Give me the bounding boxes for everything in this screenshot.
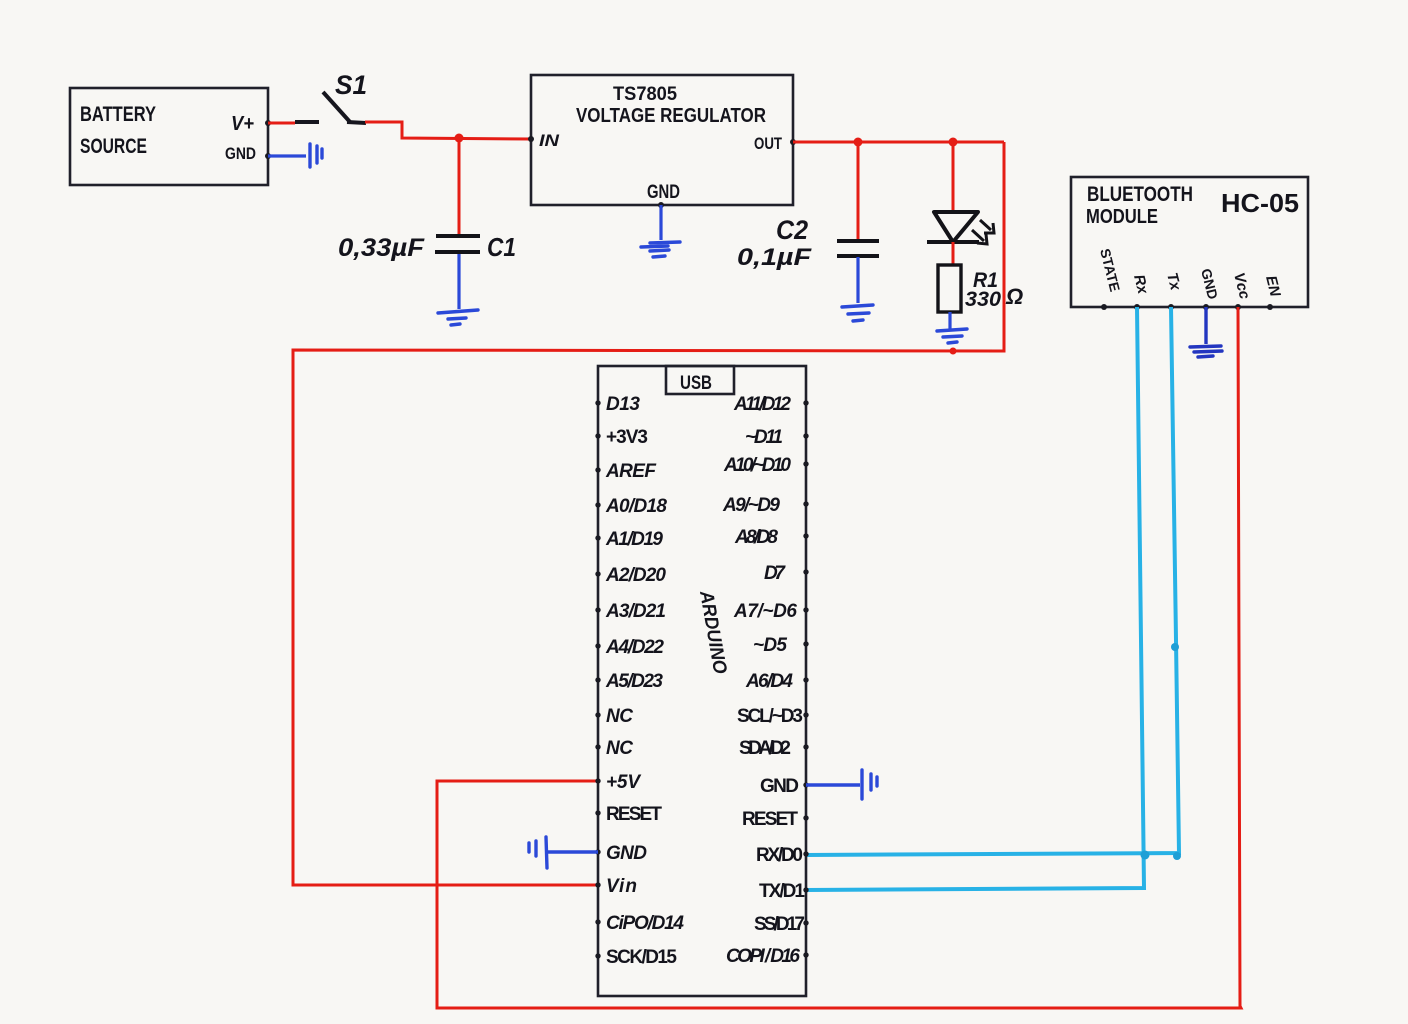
capacitor C1 (338, 138, 516, 309)
svg-text:C2: C2 (776, 215, 808, 245)
svg-text:MODULE: MODULE (1086, 206, 1158, 228)
svg-text:+3V3: +3V3 (606, 427, 648, 448)
wire HC-05 Vcc to +5V (red loop) (437, 307, 1241, 1008)
svg-text:NC: NC (606, 738, 633, 759)
svg-text:SS/D17: SS/D17 (754, 914, 805, 935)
wire arduino left GND to ground (548, 850, 598, 853)
op-amp U1 voltage regulator TS7805 box (528, 75, 796, 208)
svg-text:S1: S1 (335, 70, 367, 100)
svg-text:GND: GND (647, 182, 680, 203)
svg-text:+5V: +5V (606, 772, 641, 793)
node red dot on bottom rail (950, 348, 957, 355)
svg-text:OUT: OUT (754, 134, 782, 153)
svg-text:AREF: AREF (605, 461, 657, 482)
node junction LED tap (949, 138, 958, 147)
svg-text:USB: USB (680, 373, 712, 394)
arduino left pins (595, 394, 684, 968)
pin STATE (1097, 247, 1123, 310)
wire regulator OUT rail (793, 141, 1004, 144)
svg-text:Ω: Ω (1005, 284, 1023, 309)
switch S1 (295, 70, 367, 123)
wire OUT down-left to Vin (red loop) (293, 142, 1004, 885)
svg-text:~D5: ~D5 (753, 635, 787, 656)
svg-text:RX/D0: RX/D0 (756, 845, 803, 866)
pin Rx (1130, 273, 1151, 310)
svg-text:A1/D19: A1/D19 (605, 529, 663, 550)
resistor R1 330 ohm (938, 265, 1023, 330)
ground (R1) (937, 329, 967, 343)
svg-text:V+: V+ (231, 113, 254, 135)
svg-text:TS7805: TS7805 (613, 84, 677, 105)
svg-text:330: 330 (965, 288, 1001, 311)
svg-text:A0/D18: A0/D18 (605, 496, 667, 517)
ground (regulator) (641, 242, 680, 257)
wire HC-05 Rx to Arduino TX/D1 (cyan) (806, 307, 1144, 890)
svg-text:GND: GND (760, 776, 799, 797)
svg-text:A3/D21: A3/D21 (605, 601, 666, 622)
battery source box (70, 88, 271, 185)
svg-text:D13: D13 (606, 394, 640, 415)
svg-text:A10/~D10: A10/~D10 (723, 455, 791, 476)
ground (arduino left) (529, 837, 547, 868)
capacitor C2 (737, 142, 879, 303)
svg-text:~D11: ~D11 (745, 427, 783, 448)
svg-text:COPI / D16: COPI / D16 (726, 946, 800, 967)
node junction C1 tap (455, 134, 464, 143)
svg-text:A9/~D9: A9/~D9 (722, 495, 780, 516)
wire switch to regulator IN (365, 122, 531, 139)
svg-text:IN: IN (539, 131, 560, 150)
ground (C1) (438, 310, 478, 325)
pin EN (1262, 274, 1284, 310)
arduino box (598, 366, 806, 996)
wire battery V+ to switch (268, 122, 295, 125)
ground (C2) (842, 305, 873, 321)
svg-text:VOLTAGE REGULATOR: VOLTAGE REGULATOR (576, 105, 766, 127)
svg-text:A7/~D6: A7/~D6 (733, 601, 797, 622)
svg-text:BATTERY: BATTERY (80, 103, 156, 126)
svg-text:TX/D1: TX/D1 (759, 881, 805, 902)
svg-text:RESET: RESET (606, 804, 662, 825)
svg-text:HC-05: HC-05 (1221, 188, 1299, 218)
svg-text:0,1µF: 0,1µF (737, 244, 813, 271)
pin Vcc (1230, 271, 1253, 310)
svg-text:0,33µF: 0,33µF (338, 234, 425, 262)
pin Tx (1163, 271, 1184, 310)
svg-text:A6/D4: A6/D4 (745, 671, 793, 692)
svg-text:SDA/D2: SDA/D2 (739, 738, 791, 759)
svg-text:A2/D20: A2/D20 (605, 565, 666, 586)
svg-text:A5/D23: A5/D23 (605, 671, 663, 692)
svg-text:RESET: RESET (742, 809, 798, 830)
node cyan pen blobs (1141, 851, 1150, 860)
svg-text:NC: NC (606, 706, 633, 727)
arduino right pins (722, 394, 809, 967)
svg-text:SCK/D15: SCK/D15 (606, 947, 677, 968)
ground (arduino right) (862, 770, 877, 799)
ground (battery) (310, 144, 322, 167)
wire HC-05 Tx to Arduino RX/D0 (cyan) (806, 307, 1179, 855)
wire HC-05 GND to ground (1204, 307, 1207, 344)
node junction C2 tap (854, 138, 863, 147)
svg-text:CiPO/D14: CiPO/D14 (606, 913, 684, 934)
svg-text:A4/D22: A4/D22 (605, 637, 664, 658)
svg-text:A11/D12: A11/D12 (733, 394, 791, 415)
wire arduino right GND to ground (806, 783, 860, 786)
svg-text:Vin: Vin (606, 876, 637, 897)
svg-text:GND: GND (225, 144, 256, 163)
svg-text:C1: C1 (487, 232, 516, 262)
svg-text:SCL/~D3: SCL/~D3 (737, 706, 803, 727)
svg-text:GND: GND (606, 843, 647, 864)
wire regulator GND to ground (659, 205, 662, 240)
svg-text:BLUETOOTH: BLUETOOTH (1087, 183, 1193, 206)
svg-text:D7: D7 (764, 563, 786, 584)
wire LED to R1 (952, 242, 955, 265)
pin GND (1198, 267, 1221, 310)
bluetooth module HC-05 box (1071, 177, 1308, 307)
svg-text:A8/D8: A8/D8 (734, 527, 778, 548)
ground (HC-05) (1190, 346, 1222, 357)
svg-text:SOURCE: SOURCE (80, 135, 147, 158)
LED D1 (927, 142, 994, 244)
wire battery GND to ground (268, 154, 306, 157)
